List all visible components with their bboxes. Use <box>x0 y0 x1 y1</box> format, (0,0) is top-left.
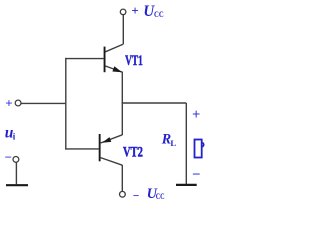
svg-text:CC: CC <box>156 191 165 201</box>
VT2 emitter arrow <box>102 137 111 143</box>
transistor VT2 (PNP) base bar <box>99 134 101 161</box>
ground (input side) <box>6 184 28 186</box>
svg-text:+: + <box>5 96 12 111</box>
wire: to VT1 base <box>65 58 104 60</box>
svg-text:+: + <box>192 107 200 123</box>
svg-text:L: L <box>170 138 176 148</box>
label ui <box>5 124 16 141</box>
svg-text:+: + <box>131 3 138 18</box>
ground (load side) <box>176 184 197 186</box>
svg-text:−: − <box>133 190 140 202</box>
resistor side mark <box>203 143 204 147</box>
label RL <box>161 132 177 148</box>
label + Ucc (top) <box>131 3 163 20</box>
terminal +Ucc (top supply terminal circle) <box>120 9 126 15</box>
wire: to VT2 base <box>65 148 99 150</box>
VT2 emitter lead <box>101 135 123 143</box>
wire: output node to load (horizontal) <box>122 102 187 104</box>
wire: input terminal to branch vertical <box>21 102 66 104</box>
svg-text:CC: CC <box>154 9 164 19</box>
VT2 collector lead <box>101 158 123 166</box>
wire: VT1 emitter down to VT2 emitter (center vertical) <box>121 72 123 135</box>
wire: minus terminal to ground <box>15 162 17 184</box>
wire: load branch vertical <box>185 103 187 184</box>
svg-text:−: − <box>5 150 12 165</box>
resistor RL (load rectangle symbol) <box>195 140 202 158</box>
transistor VT1 (NPN) base bar <box>104 47 106 73</box>
VT1 emitter lead <box>105 66 123 72</box>
terminal -Ucc (bottom supply terminal circle) <box>120 191 126 197</box>
wire: input branch vertical <box>65 58 67 150</box>
label - Ucc (bottom) <box>133 186 165 202</box>
svg-text:−: − <box>192 167 200 183</box>
svg-text:VT1: VT1 <box>125 53 143 69</box>
wire: top terminal to VT1 collector <box>122 15 124 44</box>
VT1 emitter arrow <box>112 66 122 72</box>
svg-text:VT2: VT2 <box>123 145 143 161</box>
input + terminal circle <box>15 100 21 106</box>
input - terminal circle <box>13 157 19 163</box>
VT1 collector lead <box>105 44 123 52</box>
wire: VT2 collector to bottom terminal <box>121 165 123 191</box>
